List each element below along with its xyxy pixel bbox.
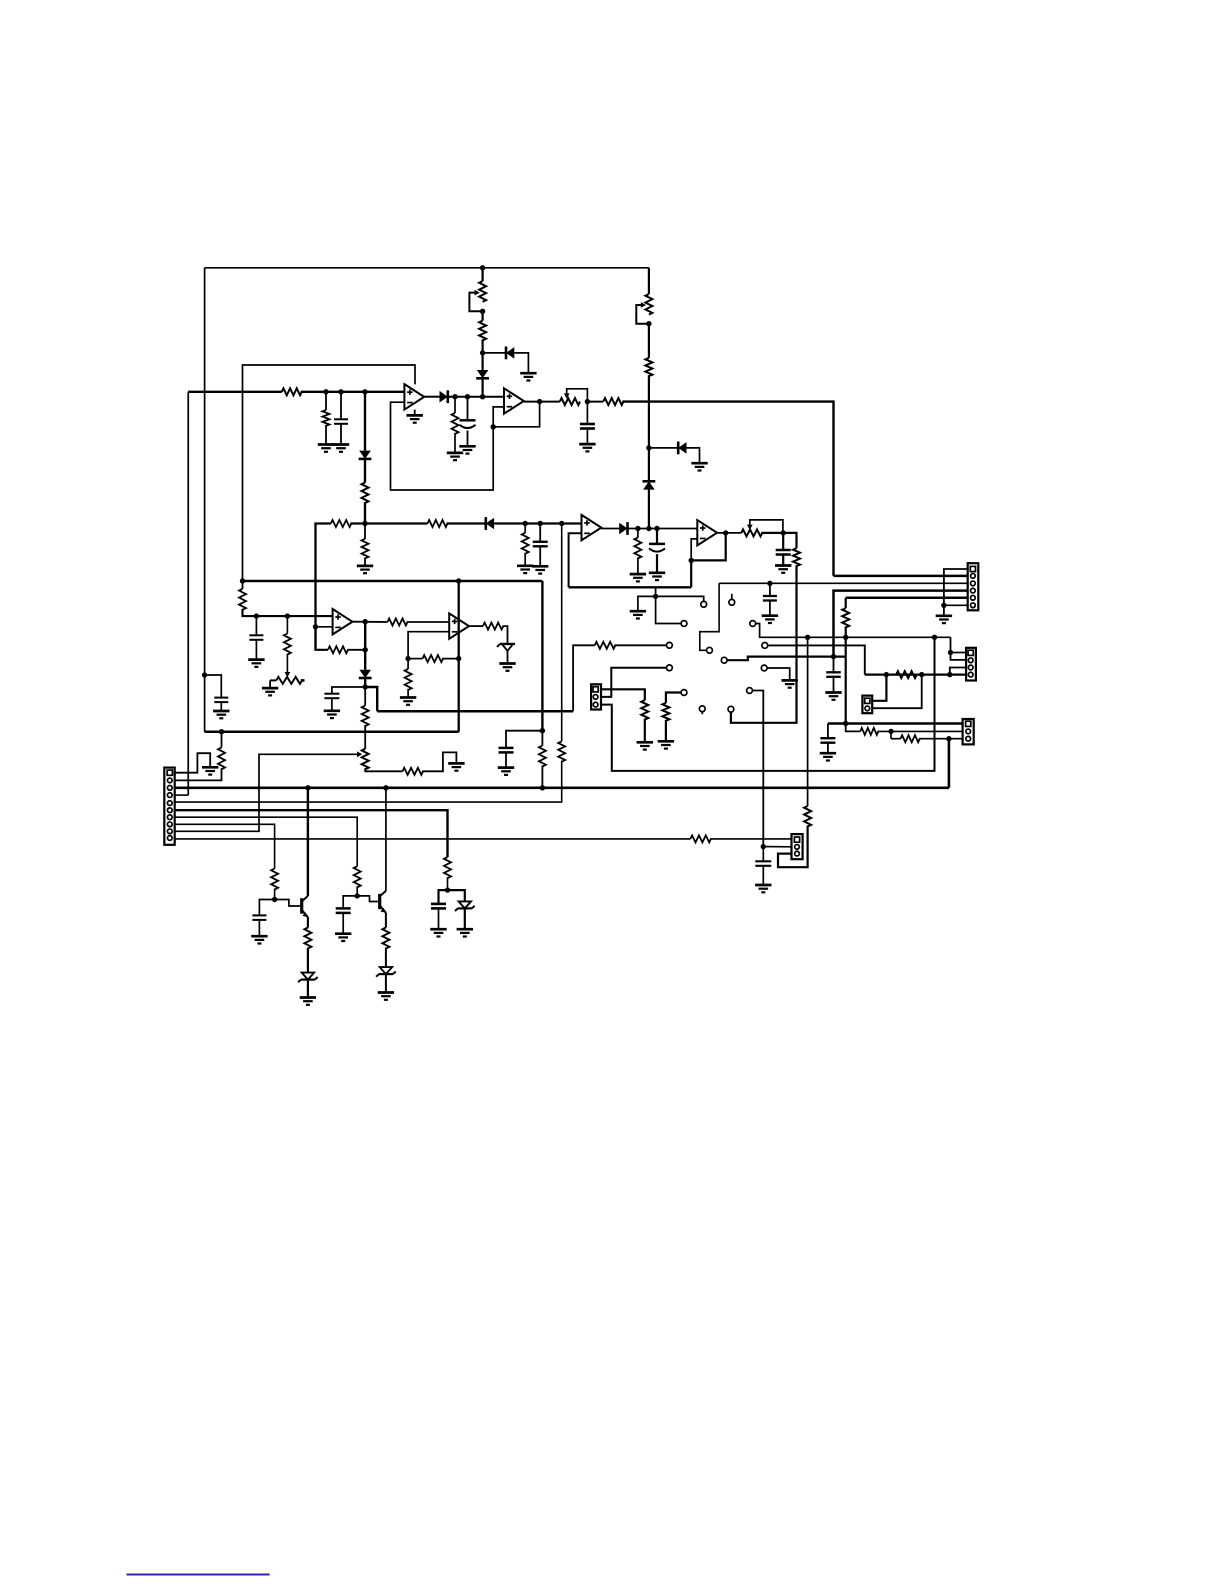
transistor Q1 [302, 898, 308, 917]
wire R35 to Z2 [307, 948, 309, 973]
ground C17 [430, 929, 446, 936]
wire J7 pin1 link [872, 675, 886, 701]
connector J4 pin2 [968, 658, 973, 663]
wire R17 to VR5 [364, 725, 366, 749]
wire C5 lead [539, 524, 541, 542]
node C12 tap [831, 654, 836, 659]
node J3 riser tap [932, 635, 937, 640]
node J7 pin2 tap [919, 672, 924, 677]
wire J1 pin4 link [175, 794, 189, 796]
wire R9 to D7 [447, 522, 486, 524]
wire C3 lead [467, 397, 469, 421]
resistor R22 [539, 746, 546, 767]
connector J5 pin3 [966, 736, 971, 741]
wire to C1 [205, 675, 222, 698]
node R14 tap [285, 613, 290, 618]
wire R22 to bus [541, 766, 543, 788]
ground C3 [459, 446, 475, 453]
resistor R37 [382, 928, 389, 949]
wire D7 to U3A [494, 522, 581, 524]
node U1A feedback junction [491, 424, 496, 429]
node J4 pin1 tap [948, 650, 953, 655]
wire R13 top [242, 581, 244, 589]
wire x846 spine [845, 598, 847, 608]
diode D3 [506, 347, 514, 360]
wire R14 to VR3 wiper [286, 654, 288, 673]
wire main input rail x188 [187, 392, 189, 795]
node J6 pin2 tap [761, 844, 766, 849]
node Q1 collector bus tap [305, 785, 310, 790]
ground J1 pin1 [202, 767, 218, 774]
wire R2 lead [325, 392, 327, 410]
wire C1 to ground [220, 702, 222, 711]
wire contact C2 east [768, 645, 865, 674]
wire J5 pin3 bus riser [948, 739, 951, 788]
wire C14 lead [762, 847, 764, 862]
resistor R35 [304, 928, 311, 949]
resistor R36 [354, 866, 361, 887]
resistor R18 [403, 768, 424, 775]
node VR2 wiper join [646, 321, 651, 326]
resistor R12 [793, 548, 800, 566]
connector J7 body [862, 696, 872, 714]
node U2B fb junction [405, 656, 410, 661]
connector J1 pin6 [167, 808, 172, 813]
trimmer VR6 [560, 389, 588, 405]
capacitor C4 [580, 424, 595, 429]
ground contact K [782, 680, 798, 687]
connector J4 pin4 [968, 672, 973, 677]
ground Z2 [300, 998, 316, 1005]
wire J2 pin5 rail [846, 597, 968, 600]
wire J6 pin3 hook [778, 826, 808, 868]
resistor R28 [896, 671, 917, 678]
wire C11 to ground [505, 752, 507, 767]
resistor R14 [284, 634, 291, 655]
resistor R34 [271, 869, 278, 890]
node J5 pin3 bus junction [946, 736, 951, 741]
op-amp U2A [333, 609, 353, 634]
resistor R33 [218, 747, 225, 769]
wire J7 pin2 link [872, 675, 922, 709]
resistor R11 [634, 538, 641, 559]
wire C17 link [439, 890, 448, 904]
contact S2-K [761, 665, 767, 671]
ground R2 [318, 445, 334, 452]
resistor R10 [522, 533, 529, 554]
connector J1 pin10 [167, 836, 172, 841]
wire U2A out riser [364, 622, 366, 650]
zener Z3 [376, 967, 396, 977]
node J4 pin3 join [947, 672, 952, 677]
node D9 junction [363, 684, 368, 689]
node D5 branch [646, 445, 651, 450]
wire U1A inverting loop [391, 402, 505, 490]
connector J1 body [164, 768, 174, 845]
wire U3B fb to out [691, 533, 726, 561]
diode D7 [486, 517, 494, 530]
ground switch common [630, 611, 646, 618]
wire bus4 [205, 730, 459, 733]
wire feedback bottom rail [569, 586, 692, 588]
ground R26 [658, 741, 674, 748]
wire U3B fb riser [690, 560, 692, 587]
wire to D5 [649, 447, 678, 449]
connector J4 body [966, 648, 976, 681]
node J6 riser tap [805, 635, 810, 640]
connector J1 pin5 [167, 801, 172, 806]
ground C11 [498, 768, 514, 775]
wire R9b top [364, 524, 366, 539]
wire U2B output [469, 625, 483, 627]
ground C14 [755, 885, 771, 892]
wire C16 link [343, 896, 357, 909]
wire U2A inverting stub [316, 626, 333, 628]
wire J2 pin3 rail [719, 582, 968, 584]
wire U1B feedback [493, 402, 539, 427]
wire C12 to ground [833, 677, 835, 692]
wire C12 lead [833, 657, 835, 673]
capacitor C3 polarized [460, 420, 476, 428]
capacitor C8 [763, 596, 777, 601]
resistor R8 [331, 520, 352, 527]
wire J2 pin4 rail [834, 591, 968, 657]
wire contact K to ground [767, 668, 790, 680]
diode D1 [440, 390, 448, 403]
wire rail to J4 pins [951, 637, 967, 660]
wire top rail [205, 267, 649, 269]
ground C16 [335, 934, 351, 941]
wire J5 pin1 rail [828, 722, 963, 724]
wire C8 to ground [769, 601, 771, 616]
connector J1 pin9 [167, 829, 172, 834]
resistor R15 [328, 646, 348, 653]
resistor R1 [282, 388, 302, 395]
ground R11 [630, 574, 646, 581]
wire R31 to J6 pin1 [710, 838, 792, 840]
wire U2B inverting [408, 632, 449, 659]
capacitor C13 [820, 738, 835, 743]
wire spine to R29 [846, 724, 861, 732]
wire R7 down [648, 375, 650, 448]
wire R37 to Z3 [385, 948, 387, 967]
diode D6 [643, 481, 656, 489]
wire R12 to switch S2 [731, 565, 797, 723]
wire J3 pin1 to R27 [601, 689, 645, 700]
contact S1-D2 [707, 647, 713, 653]
resistor R26 [662, 703, 669, 721]
wire J1 pin6 rail [175, 810, 448, 857]
wire J1 pin7 rail [175, 817, 358, 866]
connector J1 pin2 [167, 778, 172, 783]
wire common to ground [638, 596, 656, 611]
wire VR3 to ground [269, 680, 271, 687]
wire common to contact A [656, 596, 704, 601]
capacitor C10 [324, 694, 339, 699]
wire R36 to base node [356, 886, 358, 896]
wire feedback loop top [243, 365, 416, 581]
node J1pin5 riser tap [559, 521, 564, 526]
resistor R27 [641, 700, 648, 719]
wire R32 riser [807, 637, 809, 806]
wire J1 pin2 to R33 [175, 768, 222, 780]
node R11 tap [635, 526, 640, 531]
node R4 tap [452, 394, 457, 399]
node bus4 R33 junction [219, 729, 224, 734]
node C5 tap [538, 521, 543, 526]
resistor R16 [388, 619, 408, 626]
wire R11 lead [637, 529, 639, 538]
connector J4 pin1 [968, 650, 973, 655]
wire to D2 [364, 392, 366, 451]
ground C8 [762, 616, 778, 623]
contact S2-L [747, 688, 753, 694]
wire R20 to riser [442, 658, 459, 660]
wire bus1 corner down [541, 581, 543, 731]
node C2 tap [338, 389, 343, 394]
ground R27 [637, 742, 653, 749]
node C8 tap [767, 581, 772, 586]
ground C10 [324, 711, 340, 718]
wire to D4 [482, 353, 484, 370]
resistor R38 [444, 857, 451, 878]
connector J6 body [792, 834, 803, 859]
resistor R2 [323, 410, 330, 426]
wire bus2 corner [316, 524, 331, 650]
ground C6 [649, 573, 665, 580]
wire C11 link [506, 731, 542, 748]
node VR6 right [585, 399, 590, 404]
node VR1 wiper join [480, 309, 485, 314]
connector J2 pin2 [971, 574, 976, 579]
capacitor C9 [249, 635, 263, 640]
wire VR4 to R12 [761, 533, 796, 548]
capacitor C7 [776, 550, 791, 555]
wire J1 pin1 ground hook [175, 753, 211, 773]
node Q1 base [272, 897, 277, 902]
wire left rail x205 [204, 268, 206, 732]
wire bus3 [377, 710, 573, 713]
node R2 tap [323, 389, 328, 394]
wire C4 to ground [586, 429, 588, 444]
wire C2 to ground [340, 424, 342, 444]
resistor R7 [645, 358, 652, 376]
wire R15 to out node [347, 649, 365, 651]
connector J3 pin2 [593, 695, 598, 700]
capacitor C11 [499, 748, 514, 753]
wire C14 to ground [762, 866, 764, 885]
wire J1 pin3 bus [175, 786, 949, 789]
connector J1 pin8 [167, 822, 172, 827]
contact S1-E [667, 642, 673, 648]
wire R24 down spine [845, 627, 847, 724]
wire R9b to ground [364, 558, 366, 566]
wire to D9 [364, 650, 366, 670]
wire R30 left [891, 738, 901, 740]
capacitor C14 [755, 861, 771, 866]
wire D9 to node [364, 678, 366, 687]
resistor R25 [595, 642, 616, 649]
wire D9 to bus3 [365, 687, 377, 711]
connector J6 pin1 [794, 837, 799, 842]
node R24 cross tap [843, 635, 848, 640]
op-amp U3B [697, 520, 717, 545]
wire R38 to node [447, 877, 449, 890]
trimmer VR4 [741, 520, 783, 537]
contact S1-A [701, 601, 707, 607]
wire contact J east [727, 657, 846, 661]
trimmer VR1 [469, 281, 486, 311]
wire C5 to ground [539, 546, 541, 566]
wire R10 lead [524, 524, 526, 533]
wire Z4 to ground [464, 909, 466, 929]
node D6 junction [646, 526, 651, 531]
diode D5 [678, 442, 686, 455]
node left rail y675 [202, 672, 207, 677]
wire C13 to ground [827, 743, 829, 753]
wire D5 to ground [687, 448, 700, 463]
wire fb node to R20 [408, 658, 422, 660]
wire J6 pin2 stub [763, 846, 791, 848]
node J5 rail spine junction [843, 721, 848, 726]
wire R2 to ground [325, 425, 327, 444]
node U3B out [723, 530, 728, 535]
diode D9 [359, 670, 372, 678]
wire R25 to contact E [614, 644, 666, 646]
hyperlink rule [127, 1574, 270, 1576]
wire R4 lead [454, 397, 456, 413]
connector J7 pin2 [865, 706, 870, 711]
wire output rail to J2 [622, 402, 833, 576]
ground D5 [691, 463, 707, 470]
node U1B out [537, 399, 542, 404]
wire R26 to ground [665, 720, 667, 741]
node D3 branch [480, 350, 485, 355]
node switch common [653, 594, 658, 599]
wire Q2 emitter [385, 913, 387, 928]
zener Z2 [298, 973, 318, 983]
wire C9 to ground [255, 640, 257, 660]
node riser junction [456, 656, 461, 661]
wire R23 to J1 pin5 [175, 761, 562, 802]
resistor R6 [603, 398, 623, 405]
connector J3 body [591, 684, 601, 709]
wire C15 to ground [258, 920, 260, 936]
wire R11 to ground [637, 557, 639, 573]
node C11 join [540, 728, 545, 733]
ground D3 [520, 373, 536, 380]
op-amp U2B [449, 613, 469, 638]
wire R16 to U2B [407, 621, 450, 623]
resistor R32 [804, 806, 811, 827]
ground C2 [333, 445, 349, 452]
ground Z3 [378, 993, 394, 1000]
wire contact G to R26 [666, 693, 681, 703]
connector J2 pin6 [971, 603, 976, 608]
ground C7 [775, 566, 791, 573]
wire R30 to J5 pin3 [919, 738, 963, 740]
node J7 pin1 tap [884, 672, 889, 677]
wire U2A fb loop [316, 627, 329, 650]
wire C8 lead [769, 583, 771, 596]
wire J1 pin8 rail [175, 824, 275, 868]
wire C6 to ground [656, 554, 658, 572]
wire R5 to node [482, 339, 484, 353]
ground R19 [400, 698, 416, 705]
wire D3 to ground [514, 353, 528, 373]
ground C12 [825, 693, 841, 700]
wire R1 to op-amp U1A [301, 391, 405, 393]
node R38 junction [445, 887, 450, 892]
zener Z1 [497, 644, 515, 651]
wire R13 to U2A input [243, 609, 333, 616]
wire R10 to ground [524, 553, 526, 566]
contact S2-J [721, 657, 727, 663]
wire R19 top [407, 659, 409, 669]
connector J5 body [963, 719, 974, 744]
node R15 junction [363, 647, 368, 652]
connector J2 pin3 [971, 581, 976, 586]
ground C5 [532, 566, 548, 573]
resistor R4 [452, 413, 459, 434]
wire R4 to ground [454, 433, 456, 453]
wire D4 to main [482, 378, 484, 396]
wire R33 to bus4 [221, 732, 223, 748]
resistor R24 [842, 608, 849, 627]
wire common to contact D [656, 596, 681, 623]
node C6 tap [654, 526, 659, 531]
ground U1A [407, 410, 423, 423]
contact S2-I [728, 706, 734, 712]
capacitor C1 [214, 698, 228, 703]
wire R8 to R9 [350, 522, 427, 524]
wire R5 lead top [482, 311, 484, 320]
wire contact C to J4 rail [756, 624, 951, 638]
capacitor C15 [252, 915, 266, 920]
wire C6 lead [656, 529, 658, 544]
wire J1 pin10 rail [175, 838, 691, 840]
node bus1 left corner [240, 578, 245, 583]
wire R29 to J5 pin2 [877, 730, 962, 732]
contact S1-C [750, 621, 756, 627]
wire VR5 bottom [365, 768, 402, 771]
wire R3 to node [364, 502, 366, 524]
connector J2 pin4 [971, 588, 976, 593]
node U3B fb junction [689, 558, 694, 563]
node VR4 right [781, 530, 786, 535]
contact S2-C2 [762, 643, 768, 649]
wire R27 to ground [644, 719, 646, 742]
wire J4 pin3 hook [950, 668, 966, 675]
node U2A inverting [313, 624, 318, 629]
connector J1 pin4 [167, 793, 172, 798]
wire VR2 to R7 [648, 324, 650, 358]
resistor R5 [479, 321, 486, 341]
wire C9 lead [255, 616, 257, 635]
ground R18 hook [448, 763, 464, 770]
op-amp U3A [582, 515, 602, 540]
op-amp U1B [504, 388, 524, 413]
wire R6 left [587, 401, 603, 403]
wire U1A output [424, 396, 439, 398]
wire J4 pin1 stub [951, 652, 967, 654]
connector J3 pin3 [593, 702, 598, 707]
node R30 tap [888, 729, 893, 734]
connector J4 pin3 [968, 665, 973, 670]
resistor R21 [483, 623, 503, 630]
resistor R29 [860, 728, 878, 735]
wire R34 to base node [274, 889, 276, 900]
